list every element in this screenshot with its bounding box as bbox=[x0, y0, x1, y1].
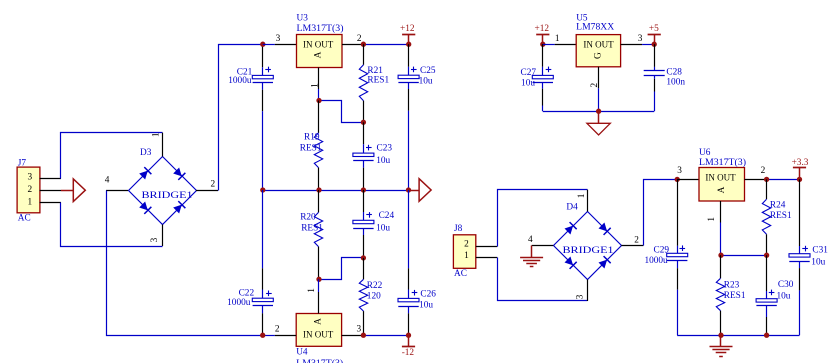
junction C23/C24 mid bbox=[361, 187, 366, 192]
designator C25 bbox=[420, 66, 436, 76]
wire J7.1 to D3.3 bbox=[61, 203, 163, 247]
junction U6 in bbox=[675, 177, 680, 182]
designator J8 bbox=[454, 224, 463, 234]
svg-text:C22: C22 bbox=[239, 288, 255, 298]
svg-text:C30: C30 bbox=[778, 280, 794, 290]
junction -12 node bbox=[406, 333, 411, 338]
pin 3 stub D4 bbox=[587, 280, 589, 302]
svg-text:J8: J8 bbox=[454, 224, 463, 234]
designator C27 bbox=[521, 68, 537, 78]
svg-text:U6: U6 bbox=[699, 148, 711, 158]
wire U3.1 to R21/C23 node bbox=[319, 101, 364, 123]
svg-text:10u: 10u bbox=[811, 257, 825, 267]
svg-text:2: 2 bbox=[357, 34, 362, 44]
ground (D4, earth) bbox=[520, 246, 543, 267]
power +12 (left) bbox=[400, 24, 415, 44]
svg-text:10u: 10u bbox=[419, 300, 433, 310]
capacitor C26 bbox=[398, 190, 419, 335]
designator C24 bbox=[379, 211, 395, 221]
capacitor C29 bbox=[667, 179, 688, 335]
pin 1 stub D3 bbox=[162, 133, 164, 157]
designator R24 bbox=[770, 201, 786, 211]
svg-text:R21: R21 bbox=[367, 66, 383, 76]
svg-text:3: 3 bbox=[677, 166, 682, 176]
capacitor C23 bbox=[353, 122, 374, 190]
svg-text:2: 2 bbox=[761, 166, 766, 176]
value RES1 (R21) bbox=[367, 76, 389, 86]
svg-text:R23: R23 bbox=[724, 280, 740, 290]
value BRIDGE1 (D3) bbox=[142, 191, 193, 201]
svg-text:1000u: 1000u bbox=[644, 256, 668, 266]
svg-text:LM78XX: LM78XX bbox=[576, 22, 614, 32]
junction U5 gnd bbox=[596, 109, 601, 114]
svg-text:3: 3 bbox=[150, 237, 160, 242]
pin 3 stub U6 bbox=[677, 179, 699, 181]
junction R19/R20 mid bbox=[316, 187, 321, 192]
pin 2 label U4 bbox=[275, 325, 280, 335]
pin 4 label D4 bbox=[528, 235, 533, 245]
svg-text:RES1: RES1 bbox=[301, 224, 323, 234]
pin 2 stub J8 bbox=[476, 246, 498, 248]
svg-text:BRIDGE1: BRIDGE1 bbox=[142, 191, 193, 201]
value RES1 (R24) bbox=[770, 211, 792, 221]
capacitor C24 bbox=[353, 190, 374, 258]
svg-text:1: 1 bbox=[307, 288, 317, 293]
svg-text:IN OUT: IN OUT bbox=[303, 330, 334, 340]
value LM317T(3) (U4) bbox=[296, 358, 343, 363]
pin 2 label D3 bbox=[211, 180, 216, 190]
wire U5 gnd rail bbox=[543, 111, 654, 113]
designator U3 bbox=[297, 13, 309, 23]
svg-text:C29: C29 bbox=[654, 245, 670, 255]
regulator U5 bbox=[576, 35, 620, 67]
designator D3 bbox=[140, 148, 152, 158]
designator J7 bbox=[18, 158, 27, 168]
pin 2 label U5 bbox=[590, 83, 600, 88]
pin 3 stub J7 bbox=[40, 178, 62, 180]
capacitor C21 bbox=[252, 44, 273, 190]
svg-text:R20: R20 bbox=[300, 213, 316, 223]
regulator U3 bbox=[297, 35, 343, 68]
capacitor C30 bbox=[756, 255, 777, 335]
junction U6 adj bbox=[718, 253, 723, 258]
resistor R19 bbox=[314, 101, 322, 191]
svg-text:2: 2 bbox=[275, 325, 280, 335]
svg-text:D4: D4 bbox=[566, 202, 578, 212]
svg-text:2: 2 bbox=[211, 180, 216, 190]
designator C30 bbox=[778, 280, 794, 290]
pin 1 label D4 bbox=[577, 193, 587, 198]
svg-text:C25: C25 bbox=[420, 66, 436, 76]
capacitor C31 bbox=[789, 179, 810, 335]
capacitor C25 bbox=[398, 44, 419, 190]
pin 3 label U3 bbox=[276, 34, 281, 44]
value 1000u (C22) bbox=[227, 298, 251, 308]
designator R21 bbox=[367, 66, 383, 76]
svg-text:3: 3 bbox=[638, 34, 643, 44]
svg-text:U4: U4 bbox=[296, 348, 308, 358]
value AC (J8) bbox=[454, 269, 467, 279]
svg-text:J7: J7 bbox=[18, 158, 27, 168]
power -12 bbox=[402, 335, 415, 358]
designator D4 bbox=[566, 202, 578, 212]
svg-text:3: 3 bbox=[276, 34, 281, 44]
junction U3 adj bbox=[316, 98, 321, 103]
value 10u (C27) bbox=[521, 78, 535, 88]
svg-text:BRIDGE1: BRIDGE1 bbox=[563, 246, 614, 256]
wire U6.1 to R24/C30 node bbox=[721, 255, 767, 257]
svg-text:A: A bbox=[717, 186, 727, 193]
bridge rectifier D4 bbox=[554, 212, 622, 280]
svg-text:C26: C26 bbox=[420, 290, 436, 300]
junction +3.3 node bbox=[797, 177, 802, 182]
pin 2 label U3 bbox=[357, 34, 362, 44]
pin 3 label U5 bbox=[638, 34, 643, 44]
capacitor C27 bbox=[532, 44, 553, 111]
svg-text:LM317T(3): LM317T(3) bbox=[699, 157, 746, 168]
svg-text:+12: +12 bbox=[535, 24, 550, 34]
pin 1 stub U5 bbox=[543, 44, 576, 46]
pin 1 stub U4 bbox=[318, 279, 320, 313]
svg-text:120: 120 bbox=[367, 292, 381, 302]
pin 3 label D3 bbox=[150, 237, 160, 242]
pin 3 label D4 bbox=[576, 294, 586, 299]
svg-text:LM317T(3): LM317T(3) bbox=[296, 358, 343, 363]
pin 2 stub U6 bbox=[745, 179, 767, 181]
wire D4.2 to U6.3 bbox=[644, 180, 678, 246]
pin 1 label U6 bbox=[707, 217, 717, 222]
pin 4 label D3 bbox=[105, 175, 110, 185]
designator U5 bbox=[576, 14, 588, 24]
pin 3 stub U3 bbox=[263, 44, 297, 46]
svg-text:C27: C27 bbox=[521, 68, 537, 78]
svg-text:2: 2 bbox=[634, 236, 639, 246]
pin 2 stub J7 bbox=[40, 190, 62, 192]
designator C21 bbox=[237, 67, 253, 77]
wire J8.2 to D4.1 bbox=[498, 190, 588, 247]
junction U6 out bbox=[764, 177, 769, 182]
designator C29 bbox=[654, 245, 670, 255]
pin 3 label U4 bbox=[357, 325, 362, 335]
designator R20 bbox=[300, 213, 316, 223]
pin 1 stub U6 bbox=[720, 201, 722, 255]
svg-text:A: A bbox=[313, 51, 323, 58]
pin 1 label U4 bbox=[307, 288, 317, 293]
designator U4 bbox=[296, 348, 308, 358]
svg-text:IN OUT: IN OUT bbox=[705, 174, 736, 184]
wire J8.1 to D4.3 bbox=[498, 258, 588, 301]
regulator U6 bbox=[699, 168, 745, 202]
svg-text:3: 3 bbox=[576, 294, 586, 299]
svg-text:+5: +5 bbox=[649, 24, 659, 34]
svg-text:2: 2 bbox=[590, 83, 600, 88]
value 120 (R22) bbox=[367, 292, 381, 302]
port arrow mid rail bbox=[409, 179, 432, 202]
svg-text:-12: -12 bbox=[402, 348, 415, 358]
junction R22/C24 bbox=[361, 255, 366, 260]
value RES1 (R23) bbox=[724, 291, 746, 301]
wire mid rail bbox=[263, 190, 409, 192]
svg-text:3: 3 bbox=[27, 173, 32, 183]
svg-text:1000u: 1000u bbox=[228, 76, 252, 86]
junction C22 neg rail bbox=[260, 333, 265, 338]
svg-text:U3: U3 bbox=[297, 13, 309, 23]
svg-text:RES1: RES1 bbox=[367, 76, 389, 86]
svg-text:RES1: RES1 bbox=[300, 143, 322, 153]
pin 1 stub J8 bbox=[476, 257, 498, 259]
svg-text:LM317T(3): LM317T(3) bbox=[297, 23, 344, 34]
svg-text:2: 2 bbox=[27, 185, 32, 195]
svg-text:1: 1 bbox=[555, 34, 560, 44]
pin 1 label D3 bbox=[151, 132, 161, 137]
junction R24/C30 bbox=[764, 253, 769, 258]
svg-text:+12: +12 bbox=[400, 24, 415, 34]
capacitor C22 bbox=[252, 190, 273, 335]
junction U5 out bbox=[652, 42, 657, 47]
value BRIDGE1 (D4) bbox=[563, 246, 614, 256]
svg-text:1: 1 bbox=[464, 251, 469, 261]
ground (U5, power-gnd triangle) bbox=[587, 111, 610, 135]
value RES1 (R20) bbox=[301, 224, 323, 234]
svg-text:10u: 10u bbox=[376, 224, 390, 234]
junction U3 out bbox=[361, 42, 366, 47]
regulator U4 bbox=[296, 314, 341, 347]
pin 4 stub D4 bbox=[532, 245, 554, 247]
junction R21/C23 bbox=[361, 120, 366, 125]
value LM317T(3) (U6) bbox=[699, 157, 746, 168]
resistor R22 bbox=[359, 258, 367, 335]
resistor R21 bbox=[359, 44, 367, 122]
wire U3.2 to +12 bbox=[363, 44, 408, 46]
svg-text:R24: R24 bbox=[770, 201, 786, 211]
value RES1 (R19) bbox=[300, 143, 322, 153]
designator C26 bbox=[420, 290, 436, 300]
pin 2 label D4 bbox=[634, 236, 639, 246]
value 10u (C30) bbox=[777, 292, 791, 302]
svg-text:A: A bbox=[314, 318, 324, 325]
pin 2 stub D4 bbox=[621, 245, 643, 247]
pin 2 label U6 bbox=[761, 166, 766, 176]
value 1000u (C29) bbox=[644, 256, 668, 266]
svg-text:C31: C31 bbox=[812, 245, 828, 255]
svg-text:G: G bbox=[594, 52, 604, 59]
junction U4 out bbox=[361, 333, 366, 338]
junction C30 gnd bbox=[764, 333, 769, 338]
junction U4 adj bbox=[316, 277, 321, 282]
svg-text:C24: C24 bbox=[379, 211, 395, 221]
svg-text:100n: 100n bbox=[666, 77, 685, 87]
svg-text:C23: C23 bbox=[377, 143, 393, 153]
svg-text:D3: D3 bbox=[140, 148, 152, 158]
pin 1 stub D4 bbox=[587, 190, 589, 212]
resistor R23 bbox=[716, 255, 724, 335]
power +3.3 bbox=[792, 158, 809, 180]
svg-text:2: 2 bbox=[464, 240, 469, 250]
pin 3 stub U4 bbox=[342, 335, 364, 337]
svg-text:3: 3 bbox=[357, 325, 362, 335]
power +5 bbox=[648, 24, 661, 44]
wire right gnd rail bbox=[677, 335, 799, 337]
junction R23 gnd bbox=[718, 333, 723, 338]
pin 3 stub U5 bbox=[621, 44, 655, 46]
svg-text:10u: 10u bbox=[521, 78, 535, 88]
bridge rectifier D3 bbox=[129, 157, 197, 225]
pin 1 stub U3 bbox=[318, 68, 320, 101]
pin 1 label U5 bbox=[555, 34, 560, 44]
svg-text:C28: C28 bbox=[666, 67, 682, 77]
pin 1 stub J7 bbox=[40, 202, 62, 204]
wire D3.2 to VIN rail bbox=[219, 45, 263, 191]
designator R23 bbox=[724, 280, 740, 290]
pin 1 label U3 bbox=[310, 83, 320, 88]
designator C28 bbox=[666, 67, 682, 77]
svg-text:10u: 10u bbox=[419, 77, 433, 87]
value 10u (C24) bbox=[376, 224, 390, 234]
pin 2 stub U5 bbox=[598, 67, 600, 111]
svg-text:1: 1 bbox=[577, 193, 587, 198]
value LM78XX (U5) bbox=[576, 22, 614, 32]
svg-text:IN OUT: IN OUT bbox=[303, 40, 334, 50]
port arrow at J7 pin 2 bbox=[61, 179, 85, 202]
value 10u (C25) bbox=[419, 77, 433, 87]
svg-text:AC: AC bbox=[454, 269, 467, 279]
value LM317T(3) (U3) bbox=[297, 23, 344, 34]
wire U4.3 to -12 bbox=[363, 335, 408, 337]
pin 2 stub U3 bbox=[342, 44, 363, 46]
pin 2 stub U4 bbox=[263, 335, 297, 337]
power +12 (U5) bbox=[535, 24, 550, 44]
svg-text:+3.3: +3.3 bbox=[792, 158, 809, 168]
junction +12 node bbox=[406, 42, 411, 47]
svg-text:10u: 10u bbox=[777, 292, 791, 302]
svg-text:AC: AC bbox=[18, 214, 31, 224]
designator R22 bbox=[367, 281, 383, 291]
svg-text:IN OUT: IN OUT bbox=[583, 40, 614, 50]
designator U6 bbox=[699, 148, 711, 158]
svg-text:RES1: RES1 bbox=[724, 291, 746, 301]
svg-text:1000u: 1000u bbox=[227, 298, 251, 308]
value 10u (C31) bbox=[811, 257, 825, 267]
node VIN+ junction C21 bbox=[260, 42, 265, 47]
connector J7 bbox=[17, 167, 40, 213]
value 1000u (C21) bbox=[228, 76, 252, 86]
svg-text:RES1: RES1 bbox=[770, 211, 792, 221]
designator C23 bbox=[377, 143, 393, 153]
svg-text:R19: R19 bbox=[304, 133, 320, 143]
value AC (J7) bbox=[18, 214, 31, 224]
pin 2 stub D3 bbox=[196, 190, 218, 192]
value 10u (C26) bbox=[419, 300, 433, 310]
resistor R24 bbox=[762, 179, 770, 255]
svg-text:4: 4 bbox=[105, 175, 110, 185]
wire U4.1 to R22/C24 node bbox=[319, 258, 364, 280]
resistor R20 bbox=[314, 190, 322, 279]
connector J8 bbox=[453, 235, 475, 268]
designator R19 bbox=[304, 133, 320, 143]
svg-text:1: 1 bbox=[151, 132, 161, 137]
svg-text:10u: 10u bbox=[376, 156, 390, 166]
designator C31 bbox=[812, 245, 828, 255]
svg-text:R22: R22 bbox=[367, 281, 383, 291]
designator C22 bbox=[239, 288, 255, 298]
pin 4 stub D3 bbox=[106, 190, 128, 192]
pin 3 label U6 bbox=[677, 166, 682, 176]
junction C21/C22 mid bbox=[260, 187, 265, 192]
svg-text:1: 1 bbox=[310, 83, 320, 88]
svg-text:4: 4 bbox=[528, 235, 533, 245]
capacitor C28 bbox=[644, 44, 665, 111]
wire U6.2 to +3.3 bbox=[767, 179, 800, 181]
junction U5 in bbox=[540, 42, 545, 47]
value 10u (C23) bbox=[376, 156, 390, 166]
wire D3.4 to neg rail bbox=[107, 191, 263, 336]
pin 3 stub D3 bbox=[162, 225, 164, 247]
svg-text:1: 1 bbox=[707, 217, 717, 222]
value 100n (C28) bbox=[666, 77, 685, 87]
wire J7.3 to D3.1 bbox=[61, 133, 163, 179]
ground (right, earth) bbox=[710, 335, 733, 356]
junction C25/C26 mid bbox=[406, 187, 411, 192]
svg-text:1: 1 bbox=[27, 197, 32, 207]
